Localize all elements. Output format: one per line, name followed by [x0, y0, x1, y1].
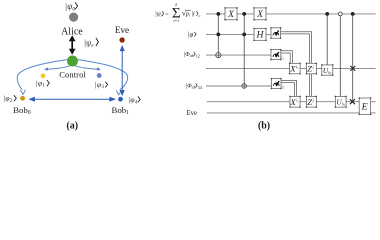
- svg-text:i=1: i=1: [173, 18, 179, 23]
- state label |phi2>: [3, 94, 16, 104]
- label row3 |Phi_ab>_12: [184, 52, 200, 59]
- svg-text:(b): (b): [258, 120, 270, 131]
- control dot q2: [216, 33, 220, 37]
- control dot q1: [351, 12, 355, 16]
- svg-text:|i: |i: [192, 11, 195, 18]
- arc Control to Bob0: [17, 60, 67, 95]
- CNOT target on q5: [242, 84, 247, 89]
- svg-text:Eve: Eve: [115, 25, 129, 35]
- caption (a): [66, 120, 78, 131]
- Bob0 label: [13, 105, 31, 116]
- svg-text:=: =: [165, 11, 168, 17]
- control dot q1: [216, 12, 220, 16]
- wire q4: [206, 67, 376, 69]
- arrow Eve-Bob1: [120, 46, 124, 95]
- label row2 |phi>: [188, 31, 196, 38]
- swap cross on q4: [350, 66, 355, 71]
- gate H on q2: [253, 28, 266, 41]
- Bob0 node: [20, 96, 25, 101]
- CNOT target on q3: [216, 53, 221, 58]
- wire q5: [206, 85, 272, 87]
- svg-text:Z: Z: [307, 64, 312, 74]
- wire q2: [206, 33, 271, 35]
- svg-text:12: 12: [196, 54, 200, 59]
- label Eve wire: [187, 110, 198, 117]
- Control node: [67, 56, 78, 67]
- gate U_b1 on q6: [335, 96, 347, 108]
- svg-text:Eve: Eve: [187, 110, 198, 117]
- swap cross on q6: [350, 99, 355, 104]
- control line V2 (q1,q2 -> target q5): [242, 12, 247, 88]
- caption (b): [258, 120, 270, 131]
- node phi1: [36, 73, 50, 88]
- wire q6: [207, 101, 359, 103]
- open control on q1: [338, 12, 342, 16]
- gate U_b0 on q4: [321, 64, 333, 76]
- svg-text:X: X: [227, 9, 235, 20]
- gate X^i2 on q6: [289, 96, 300, 108]
- wire q3: [206, 54, 271, 56]
- arrow Bob0-Bob1: [30, 97, 115, 101]
- gate X2 on q1: [253, 7, 266, 20]
- svg-text:Z: Z: [307, 97, 312, 107]
- svg-text:|ψs: |ψs: [155, 11, 163, 18]
- svg-text:2: 2: [175, 2, 177, 7]
- svg-text:X: X: [256, 9, 264, 20]
- arc Bob1 to Control: [75, 66, 101, 71]
- label row1 |psi_s> = sum_i sqrt(p_i)|i>_c: [155, 2, 201, 23]
- Alice node: [69, 13, 78, 22]
- Bob1 node: [118, 97, 123, 102]
- svg-text:c: c: [199, 13, 201, 18]
- Bob1 label: [112, 105, 130, 116]
- control line V5 (q1 -> swap q4,q6): [350, 12, 355, 104]
- svg-text:i2: i2: [282, 84, 285, 90]
- classical wire C1: M2 -> Z on q4 and Z on q6: [281, 32, 312, 97]
- svg-text:|Φab: |Φab: [186, 84, 196, 90]
- svg-text:i1: i1: [281, 55, 284, 61]
- Alice label: [61, 27, 83, 38]
- gate E (Eve attack, spans q6 and Eve wire): [359, 97, 372, 115]
- node phi3: [95, 73, 108, 90]
- wire Eve stub after E: [371, 112, 376, 114]
- classical wire C2: M3 -> X on q4: [281, 51, 293, 64]
- control line V1 (q1,q2 -> target q3): [216, 12, 221, 58]
- control line V3 (q1 -> U_b0): [325, 12, 329, 65]
- Control label: [59, 70, 86, 80]
- label row5 |Phi_ab>_34: [186, 83, 203, 90]
- measurement M2 on q2: [270, 27, 281, 39]
- wire q1: [206, 13, 376, 15]
- svg-text:Control: Control: [59, 70, 86, 80]
- arc Control to Bob1: [78, 60, 128, 95]
- svg-text:|Φab: |Φab: [184, 52, 194, 58]
- wire Eve: [207, 112, 359, 114]
- control line V4 (q1 open control -> U_b1): [338, 12, 342, 96]
- state label |phi4>: [128, 95, 140, 105]
- wire q6 stub after E: [371, 101, 376, 103]
- state label |psi_e>: [84, 38, 98, 49]
- classical wire C3: M5 -> X on q6: [281, 80, 297, 96]
- control dot q1: [242, 12, 246, 16]
- Eve node: [115, 25, 129, 43]
- svg-text:H: H: [256, 30, 265, 41]
- svg-text:(a): (a): [66, 120, 78, 131]
- measurement M5 on q5 (outcome i2): [271, 78, 285, 89]
- control dot q1: [325, 12, 329, 16]
- svg-text:pi: pi: [185, 11, 191, 18]
- svg-text:|φ: |φ: [188, 31, 194, 38]
- measurement M3 on q3 (outcome i1): [270, 49, 284, 60]
- control dot q2: [242, 33, 246, 37]
- svg-text:E: E: [361, 102, 368, 113]
- gate Z^j on q4: [306, 63, 317, 75]
- arc Bob0 to Control: [44, 66, 70, 71]
- gate Z^j on q6: [306, 96, 317, 108]
- node state label |psi0>: [65, 2, 78, 12]
- gate X1 on q1: [224, 7, 237, 20]
- arrow Alice-Control: [70, 36, 75, 53]
- gate X^i1 on q4: [289, 63, 301, 75]
